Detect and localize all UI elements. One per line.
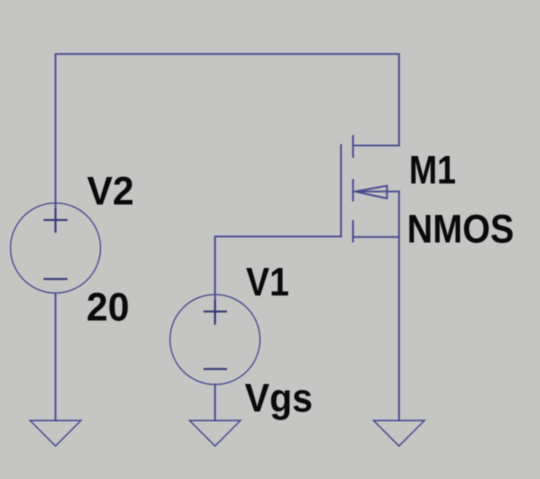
transistor M1 bulk arrow line	[355, 191, 399, 193]
svg-text:V2: V2	[87, 170, 134, 214]
ground under V1	[190, 421, 241, 447]
V1 minus sign	[204, 368, 228, 370]
wire V1 bottom to ground	[214, 385, 216, 421]
V1 plus sign	[204, 310, 228, 312]
svg-text:20: 20	[86, 286, 129, 330]
svg-text:M1: M1	[409, 148, 456, 192]
wire top from V2 to drain	[56, 54, 400, 232]
wire gate from V1 top	[215, 237, 341, 325]
wire V2 bottom to ground	[55, 294, 57, 421]
transistor M1 bulk arrowhead	[355, 186, 387, 199]
svg-text:Vgs: Vgs	[245, 377, 313, 421]
svg-text:NMOS: NMOS	[407, 207, 514, 251]
V2 plus sign	[44, 219, 68, 221]
voltage source V2 circle	[11, 203, 101, 293]
wire source/bulk to ground	[398, 192, 400, 421]
transistor M1 channel dash bottom	[352, 221, 354, 242]
svg-text:V1: V1	[246, 261, 289, 305]
ground under V2	[30, 421, 81, 447]
ground under M1 source	[374, 421, 425, 447]
voltage source V1 circle	[170, 295, 260, 385]
transistor M1 channel dash middle	[352, 180, 354, 201]
transistor M1 drain lead	[353, 145, 399, 147]
transistor M1 source lead	[353, 236, 399, 238]
transistor M1 channel dash top	[352, 136, 354, 157]
transistor M1 gate bar	[340, 145, 342, 237]
V2 minus sign	[44, 278, 68, 280]
